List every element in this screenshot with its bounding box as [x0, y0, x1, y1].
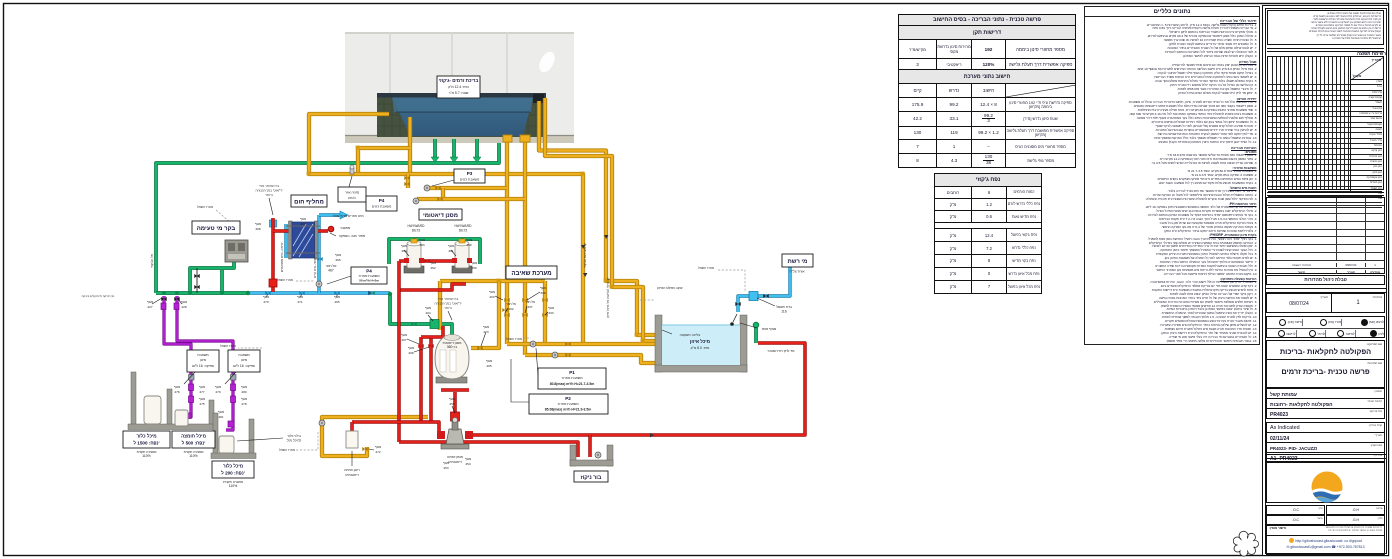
svg-text:מינון: מינון: [241, 358, 248, 362]
svg-text:קו מילוי /גלישה אל מיכל איזון: קו מילוי /גלישה אל מיכל איזון: [606, 278, 610, 318]
component: containment basin 3: [211, 413, 256, 459]
svg-text:480: 480: [241, 390, 246, 394]
svg-text:50 m³/h H=2m: 50 m³/h H=2m: [359, 279, 379, 283]
svg-text:ברז שחרור אויר: ברז שחרור אויר: [259, 184, 280, 188]
svg-text:DE72: DE72: [412, 229, 421, 233]
labels: valve number tags: [147, 217, 554, 470]
wire: slurry feed line (red): [352, 422, 439, 432]
svg-text:402: 402: [508, 307, 513, 311]
component: drain pit sump pump: [595, 452, 601, 458]
wire: valve 455 drop to pump (red): [453, 392, 457, 428]
wire: diatomite filters waste header (red): [399, 259, 462, 263]
label: city water box: [782, 254, 813, 274]
wire: jet suction header H2 (yellow): [505, 141, 509, 344]
svg-text:מארז חשמל: מארז חשמל: [197, 205, 213, 209]
svg-text:P3: P3: [467, 171, 473, 176]
svg-text:יד'/אוט' בנק' הגבוהה: יד'/אוט' בנק' הגבוהה: [434, 302, 461, 306]
label: dosing pump box 2: [225, 350, 260, 384]
svg-text:מגוף: מגוף: [300, 217, 306, 221]
node: pool drain tees with down arrows (green): [431, 157, 481, 163]
svg-text:110%: 110%: [229, 484, 237, 488]
svg-text:337: 337: [527, 305, 532, 309]
svg-text:459: 459: [471, 266, 476, 270]
wire: jet suction header H2 branch (yellow): [424, 186, 507, 190]
labels: rotated pipe route texts: [150, 242, 610, 318]
label: electric box texts: [197, 205, 714, 452]
label: diatomaceous filter box: [419, 209, 462, 220]
wire: pool drain drop 1 (green): [433, 139, 437, 157]
component: chlorine tank 1500L: [144, 396, 161, 424]
svg-text:HAYWARD: HAYWARD: [455, 224, 473, 228]
valve: green gate valve 404: [430, 320, 439, 329]
component: diatomite regeneration filter unit 1 HAYWARD DE72: [404, 239, 424, 273]
valve: yellow bowties: [362, 176, 570, 451]
title block: revision table caption: [1266, 275, 1385, 285]
valve purple gates on dosing risers: [161, 303, 236, 427]
svg-text:333: 333: [548, 311, 553, 315]
svg-text:מארז חשמל: מארז חשמל: [220, 344, 236, 348]
wire: backwash cross header (red): [399, 284, 466, 290]
svg-text:מגוף: מגוף: [448, 244, 454, 248]
label: chlorine tank 1500 box: [123, 431, 170, 458]
wire: heated water return segment (cyan): [248, 291, 390, 294]
wire: jet header branch via riser 358 (yellow): [358, 148, 410, 174]
component: skimmer boxes at pool edge (yellow): [503, 135, 512, 142]
svg-text:מגוף: מגוף: [255, 222, 261, 226]
label: air release jets box: [338, 176, 366, 202]
label pointer lines to valves: [152, 250, 548, 450]
component: chemical containment basin 1+2 base: [128, 372, 216, 430]
svg-text:מגוף: מגוף: [218, 410, 224, 414]
svg-text:אל חוזר: אל חוזר: [326, 264, 338, 268]
svg-text:473: 473: [483, 330, 488, 334]
wire: chemical injection main segment (green): [156, 291, 248, 295]
svg-text:428: 428: [181, 305, 186, 309]
component: pump P4 jets: [413, 198, 419, 204]
component: pump P3 jets: [424, 185, 430, 191]
svg-text:מגוף: מגוף: [215, 385, 221, 389]
wire: jet supply into pool floor (yellow): [408, 117, 412, 174]
svg-text:מגוף: מגוף: [486, 359, 492, 363]
svg-text:דיאטומיט: דיאטומיט: [448, 460, 462, 464]
wire: check-valve drop (yellow): [543, 281, 547, 344]
svg-text:מגוף: מגוף: [401, 244, 407, 248]
component: drain pit walls: [570, 445, 613, 466]
wire: skimmer riser 2 (yellow): [523, 141, 527, 355]
svg-text:מד לחץ הידרוסטטי: מד לחץ הידרוסטטי: [768, 349, 796, 353]
table: pool technical data / calculation basis: [898, 14, 1076, 168]
svg-text:מארז חשמל: מארז חשמל: [279, 448, 295, 452]
svg-text:כניסה- מים קרים: כניסה- מים קרים: [313, 257, 317, 278]
title block: date/receiver diagonal cell: [1350, 57, 1383, 80]
component: expansion vessel ball (red): [328, 226, 334, 232]
label: acid tank 500 box: [172, 431, 215, 458]
wire: overflow drop to drain pit (red): [588, 435, 592, 457]
wire: heat exchanger hot loop riser (red): [271, 218, 275, 292]
svg-text:P4: P4: [379, 198, 385, 203]
valve: cyan square on hot riser: [270, 220, 277, 227]
label: dosing pump box 1: [184, 350, 219, 384]
label: pump P3 box: [432, 169, 485, 186]
svg-text:בילוי כלור: בילוי כלור: [287, 434, 301, 438]
title block: distribution list header: [1267, 51, 1386, 56]
svg-text:427: 427: [147, 305, 152, 309]
svg-text:מגוף: מגוף: [199, 397, 205, 401]
component: dosing pump heads: [189, 375, 195, 381]
svg-text:מגוף: מגוף: [147, 300, 153, 304]
svg-text:471: 471: [297, 300, 302, 304]
title block: checked/drawn table: [1266, 505, 1385, 523]
svg-text:476: 476: [174, 390, 179, 394]
svg-text:338: 338: [540, 291, 545, 295]
svg-text:P2: P2: [565, 396, 571, 401]
svg-text:460: 460: [466, 243, 471, 247]
svg-text:DE72: DE72: [459, 229, 468, 233]
component: diatomite regeneration filter unit 2 HAYWARD DE72: [452, 239, 472, 273]
svg-text:דיאטומיט: דיאטומיט: [345, 473, 359, 477]
svg-text:מגוף: מגוף: [483, 325, 489, 329]
wire: pool drain drop 3 (green): [475, 139, 479, 157]
svg-text:מגוף: מגוף: [540, 286, 546, 290]
svg-text:466: 466: [335, 258, 340, 262]
wire: jet discharge header from P3/P4 pumps (yellow): [309, 114, 583, 345]
svg-text:מי רשת: מי רשת: [788, 259, 808, 265]
svg-text:HAYWARD: HAYWARD: [408, 224, 426, 228]
wire: controller sample stub (green): [220, 270, 224, 293]
wire: taste-water controller branch (green): [190, 262, 234, 293]
svg-text:מגוף: מגוף: [375, 445, 381, 449]
svg-text:ספיקה: 16 ל'/ש: ספיקה: 16 ל'/ש: [233, 364, 256, 368]
svg-text:455: 455: [449, 402, 454, 406]
wire: city water fill line (cyan): [738, 267, 790, 312]
svg-text:למיכל מזל: למיכל מזל: [287, 439, 302, 443]
svg-text:479: 479: [215, 390, 220, 394]
svg-text:עוקב מפלס האיזון: עוקב מפלס האיזון: [657, 286, 682, 290]
component: balance tank walls: [655, 315, 747, 372]
svg-text:מגוף: מגוף: [199, 385, 205, 389]
wire: electric dashed connectors: [216, 210, 232, 224]
wire: HX cold side left riser (cyan): [284, 224, 287, 258]
valve: red bowties 407/408: [418, 259, 433, 348]
svg-text:מים חוזרים מדוד סולר: מים חוזרים מדוד סולר: [332, 214, 364, 218]
wire: balance tank overflow return main (red): [470, 343, 805, 435]
svg-text:נפח: 200 ל': נפח: 200 ל': [221, 471, 245, 476]
wire: main pool return loop (green): [156, 143, 499, 293]
label: pump P4 jets box: [366, 196, 397, 211]
title block: company logo (sun over waves): [1266, 461, 1385, 503]
svg-text:463: 463: [419, 243, 424, 247]
svg-text:נפח: 1500 ל': נפח: 1500 ל': [133, 441, 159, 446]
component: chemical injection check valves (black): [161, 297, 179, 301]
svg-text:בליעה השקטה: בליעה השקטה: [680, 333, 701, 337]
flow arrows (black chevrons): [368, 235, 654, 437]
svg-text:110%: 110%: [189, 454, 197, 458]
svg-text:משאבת: משאבת: [238, 353, 250, 357]
svg-text:מארז חשמל: מארז חשמל: [277, 278, 293, 282]
wire: waste line to drain pit (red): [399, 442, 578, 457]
wire: jet suction branch H3 to pump P4 (yellow): [417, 188, 443, 199]
wire: chlorine dosing line to station 1 (purple): [164, 296, 191, 417]
svg-text:110%: 110%: [142, 454, 150, 458]
title block: contact details: [1266, 535, 1385, 555]
title block: status radio rows: [1266, 316, 1385, 338]
component: main diatomaceous filter vessel: [435, 335, 469, 384]
svg-text:משאבת סחרור: משאבת סחרור: [561, 376, 583, 380]
svg-text:בדח חשמל: בדח חשמל: [776, 305, 792, 309]
svg-text:454: 454: [465, 462, 470, 466]
wire: filter backwash drop B valve 408 (red): [429, 337, 433, 422]
wire: pool drain drop 2 (green): [452, 139, 456, 157]
title block: project name: [1266, 340, 1385, 388]
svg-text:מגוף: מגוף: [443, 461, 449, 465]
wire: filtration discharge manifold (yellow): [440, 279, 545, 283]
svg-text:408: 408: [408, 351, 413, 355]
component: pump P4 heat-exchanger circulator (cyan): [316, 281, 322, 287]
svg-text:משאבת ג'טים: משאבת ג'טים: [372, 205, 392, 209]
svg-text:בריכת זרמים -ג'קוזי: בריכת זרמים -ג'קוזי: [439, 78, 479, 83]
svg-text:אל חוזר: אל חוזר: [525, 300, 535, 304]
svg-text:ברז שחרור אויר: ברז שחרור אויר: [438, 297, 459, 301]
svg-text:מסק אדמה: מסק אדמה: [447, 455, 464, 459]
svg-text:403: 403: [489, 295, 494, 299]
svg-text:מגוף: מגוף: [425, 306, 431, 310]
svg-text:אל הג'קוזי: אל הג'קוזי: [150, 253, 154, 268]
wire: diatomite filter drop 1 (green): [412, 239, 416, 245]
node: green junction dots: [162, 237, 464, 296]
svg-text:מגוף: מגוף: [241, 385, 247, 389]
label: pump P1 box: [536, 348, 606, 389]
wire: pump suction line L1 from balance tank (yellow): [507, 342, 659, 346]
title block: disclaimer small print: [1266, 525, 1385, 536]
svg-text:נפח: 12.4 מ"ק: נפח: 12.4 מ"ק: [448, 85, 469, 89]
svg-text:475: 475: [199, 402, 204, 406]
svg-text:מגוף: מגוף: [548, 306, 554, 310]
svg-text:מגוף: מגוף: [335, 253, 341, 257]
component: air release valve on header: [350, 168, 354, 174]
svg-text:405: 405: [486, 364, 491, 368]
svg-text:מגוף: מגוף: [241, 397, 247, 401]
svg-text:שטח: 5.7 מ"ר: שטח: 5.7 מ"ר: [449, 91, 469, 95]
wire: valve 455 bypass branch (red): [441, 388, 469, 392]
wire: diatomite slurry feeder loop (yellow): [322, 417, 428, 456]
svg-text:ג'טים: ג'טים: [348, 196, 356, 200]
label: pool info box: [437, 76, 480, 98]
svg-text:ביותר: ביותר: [444, 306, 452, 310]
label: drain pit box: [574, 471, 608, 482]
component: pump P2: [552, 352, 558, 358]
wire: heat exchanger expansion stub (red): [315, 229, 328, 233]
label: pump P2 box: [511, 359, 608, 414]
svg-text:מגוף: מגוף: [408, 346, 414, 350]
svg-text:יד'/אוט' בנק' הגבוהה: יד'/אוט' בנק' הגבוהה: [255, 189, 282, 193]
svg-text:משאבת: משאבת: [197, 353, 209, 357]
wire: gutter drain upper run to balance tank (yellow): [539, 101, 658, 335]
svg-text:477: 477: [199, 390, 204, 394]
wire: gutter drain lower run to balance tank (yellow): [545, 98, 658, 341]
svg-text:מגוף: מגוף: [174, 385, 180, 389]
title block column: [1262, 5, 1389, 556]
svg-text:מגוף: מגוף: [430, 261, 436, 265]
wire: filter backwash drop A valve 407 (red): [419, 337, 423, 422]
pool photo: wall background: [345, 32, 574, 143]
component: float switch in balance tank: [733, 314, 737, 322]
svg-text:מגוף: מגוף: [419, 238, 425, 242]
svg-text:מגוף: מגוף: [401, 333, 407, 337]
title block: general notes text: [1267, 10, 1384, 45]
label: air release note at filter: [434, 297, 461, 320]
svg-text:מיכל כלור: מיכל כלור: [136, 434, 156, 439]
valve red square on HX riser: [269, 279, 277, 287]
wire: filtered water to filter inlet (green): [390, 294, 452, 340]
notes column: general notes: [1084, 6, 1260, 345]
svg-text:נפח: 500 ל': נפח: 500 ל': [182, 441, 206, 446]
label: pump P4 HX box: [327, 267, 387, 284]
pool basin with tiled rim: [377, 93, 546, 137]
component: taste water controller unit: [225, 240, 248, 262]
svg-text:מיכל איזון: מיכל איזון: [690, 339, 710, 344]
svg-text:453: 453: [443, 466, 448, 470]
wire: backwash top link from green tee (red): [421, 326, 443, 337]
svg-text:מגוף: מגוף: [489, 290, 495, 294]
svg-text:85.08(max) m³/h H=21.9-3.5m: 85.08(max) m³/h H=21.9-3.5m: [545, 408, 591, 412]
svg-text:404: 404: [425, 311, 430, 315]
fitting: hydrostatic relief elbow at balance tank (green): [754, 326, 758, 343]
svg-text:478: 478: [241, 402, 246, 406]
svg-text:בר:360: בר:360: [447, 345, 457, 349]
title block: project fields: [1266, 388, 1385, 463]
svg-text:465: 465: [334, 300, 339, 304]
valve: green bowtie on controller stub: [369, 291, 416, 326]
component: acid tank 500L: [175, 410, 188, 426]
svg-text:468: 468: [255, 227, 260, 231]
wire: diatomite filter drop 2 (green): [460, 239, 464, 245]
svg-text:מארז חשמל: מארז חשמל: [698, 266, 714, 270]
svg-text:P1: P1: [569, 370, 575, 375]
svg-text:P4: P4: [366, 269, 372, 274]
wire: filter inlet drop (yellow): [438, 281, 442, 330]
svg-text:אל חוזר: אל חוזר: [506, 302, 516, 306]
wire: slurry drop into feeder tank (red): [350, 422, 354, 432]
svg-text:רעגן אדמה: רעגן אדמה: [344, 468, 360, 472]
svg-text:משאבת סחרור: משאבת סחרור: [358, 274, 380, 278]
svg-text:מפסבר: מפסבר: [340, 226, 351, 230]
component: backwash separation pump unit: [437, 417, 473, 449]
svg-text:407: 407: [401, 338, 406, 342]
title block: revision history table: [1266, 197, 1385, 274]
node: yellow corner joints: [307, 146, 645, 343]
svg-text:ביותר: ביותר: [265, 193, 273, 197]
svg-text:ספיקה: 16 ל'/ש: ספיקה: 16 ל'/ש: [192, 364, 215, 368]
label: heat exchanger box: [291, 195, 327, 207]
svg-text:נפח: 8.0 מ"ק: נפח: 8.0 מ"ק: [691, 346, 710, 350]
wire: filter outlet riser (yellow): [471, 281, 499, 348]
svg-text:מפזר חום -הספקה: מפזר חום -הספקה: [339, 234, 366, 238]
svg-text:116: 116: [781, 310, 787, 314]
valve: cyan bowtie on HX drop: [265, 257, 339, 295]
wire: solar return arrow stub (cyan): [319, 213, 340, 216]
svg-text:מחליף חום: מחליף חום: [294, 198, 324, 206]
svg-text:מערכת שאיבה: מערכת שאיבה: [511, 270, 551, 277]
svg-text:481: 481: [218, 415, 223, 419]
wire: header jumper with isolation valves (yellow): [406, 174, 410, 188]
svg-text:מגוף: מגוף: [466, 238, 472, 242]
svg-text:80.8(max) m³/h H=21.7-3.5m: 80.8(max) m³/h H=21.7-3.5m: [550, 382, 595, 386]
svg-text:מסנן דיאטומי: מסנן דיאטומי: [423, 213, 458, 219]
component: slurry dosing pump: [319, 420, 325, 426]
svg-text:בור ניקוז: בור ניקוז: [581, 475, 602, 481]
component: heat exchanger plate pack U-HX: [286, 221, 320, 259]
wire: heat exchanger cold inlet drop (cyan): [317, 215, 320, 293]
svg-text:מגוף: מגוף: [471, 261, 477, 265]
svg-text:משאבת ג'טים: משאבת ג'טים: [460, 178, 480, 182]
svg-text:470: 470: [263, 300, 268, 304]
svg-text:מינון: מינון: [200, 358, 207, 362]
svg-text:467: 467: [328, 269, 334, 273]
svg-text:אוהד צל"ח: אוהד צל"ח: [789, 270, 805, 274]
wire: diatomite filters supply (green): [389, 239, 480, 264]
label: taste water controller box: [192, 221, 240, 234]
wire: heat exchanger hot supply (red): [273, 229, 307, 233]
svg-text:מיכל כלור: מיכל כלור: [223, 464, 243, 469]
wire: dosing sample line with valves (black): [196, 268, 198, 293]
svg-text:מזהה אויר: מזהה אויר: [345, 191, 360, 195]
svg-text:מגוף: מגוף: [449, 397, 455, 401]
title block: edition / date row: [1266, 293, 1385, 313]
pool photo: floor strip: [345, 135, 574, 143]
wire: pump suction line L2 from balance tank (yellow): [525, 355, 657, 363]
wire: acid dosing line to station 2 (purple): [177, 296, 233, 430]
title block: distribution grid: [1267, 56, 1384, 190]
svg-text:מצוף אוחז: מצוף אוחז: [762, 327, 777, 331]
label: pumping system box: [506, 266, 557, 279]
component: diatomite slurry feeder tank: [346, 431, 358, 448]
revision cloud mark bottom right: [1233, 531, 1258, 556]
svg-text:469: 469: [300, 222, 305, 226]
svg-text:נק' הזרקה לכימיקלים ביניקה: נק' הזרקה לכימיקלים ביניקה: [82, 294, 115, 298]
svg-text:משאבת סחרור: משאבת סחרור: [557, 402, 579, 406]
table: jacuzzi volumes: [934, 173, 1042, 294]
wire: H3 right extension (yellow): [443, 197, 525, 201]
svg-text:462: 462: [430, 266, 435, 270]
svg-text:בקר מי טעימה: בקר מי טעימה: [197, 226, 236, 232]
wire: main waste downcomer (red): [397, 261, 401, 442]
svg-text:472: 472: [375, 450, 380, 454]
svg-text:יציאה- מים מחוממים: יציאה- מים מחוממים: [280, 242, 284, 272]
component: pump P1: [530, 341, 536, 347]
label: chlorine tank 200 box: [212, 461, 254, 488]
valve 455 (red gate): [451, 412, 460, 421]
label: air release note at HX: [255, 184, 282, 215]
valve: cyan gate on city water: [749, 292, 758, 301]
svg-text:מגוף: מגוף: [465, 457, 471, 461]
component: chlorine tank 200L: [219, 436, 234, 453]
svg-text:מיכל חומצה: מיכל חומצה: [181, 434, 206, 439]
svg-text:מארז חשמל: מארז חשמל: [506, 337, 522, 341]
